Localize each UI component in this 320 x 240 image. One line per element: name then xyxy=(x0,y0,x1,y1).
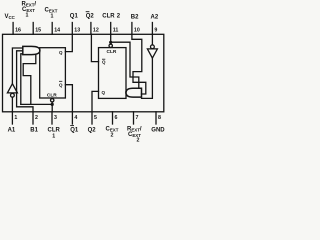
svg-text:CLR: CLR xyxy=(47,92,57,98)
svg-text:CLR: CLR xyxy=(102,13,115,19)
inverter A1 bubble xyxy=(11,93,15,97)
wire A1 input (pin1 to bubble) xyxy=(11,97,13,112)
svg-text:Q: Q xyxy=(59,83,63,88)
wire CLR1 vertical to gate bottom input xyxy=(21,54,23,105)
inverter A1 triangle xyxy=(7,84,17,93)
svg-text:Q1: Q1 xyxy=(70,127,79,133)
pin 3 stub xyxy=(51,112,53,124)
svg-text:CLR: CLR xyxy=(107,49,117,55)
wire CLR2 node jog to gate2 top xyxy=(111,42,139,88)
wire CLR2 pin11 to node xyxy=(110,34,112,44)
svg-text:GND: GND xyxy=(151,127,165,133)
pin 5 stub xyxy=(91,112,93,124)
svg-text:2: 2 xyxy=(111,133,114,139)
svg-text:2: 2 xyxy=(35,115,38,121)
wire B1 pin2 to gate middle input xyxy=(17,51,33,112)
wire Q1-bar output to pin 4 xyxy=(65,85,72,112)
and-gate G1 xyxy=(23,46,40,54)
svg-text:9: 9 xyxy=(154,28,157,34)
svg-text:CLR: CLR xyxy=(48,127,61,133)
svg-text:A2: A2 xyxy=(151,14,159,20)
svg-text:Q: Q xyxy=(102,59,106,64)
wire A1 inverted to gate top input xyxy=(12,48,22,84)
pin 1 stub xyxy=(11,112,13,124)
pin 14 stub xyxy=(51,23,53,35)
svg-text:2: 2 xyxy=(117,13,121,19)
svg-text:15: 15 xyxy=(35,28,41,34)
svg-text:13: 13 xyxy=(74,28,80,34)
svg-text:Q: Q xyxy=(102,90,106,95)
svg-text:12: 12 xyxy=(93,28,99,34)
svg-text:1: 1 xyxy=(51,14,54,20)
svg-text:Q1: Q1 xyxy=(70,13,79,19)
svg-text:VCC: VCC xyxy=(5,14,16,20)
pin 4 stub xyxy=(71,112,73,124)
svg-text:B2: B2 xyxy=(131,14,139,20)
clear bubble on block U1a xyxy=(51,99,54,102)
pin 2 stub xyxy=(32,112,34,124)
wire zigzag gate1 bottom to CLR1 net xyxy=(23,55,36,105)
svg-text:6: 6 xyxy=(115,115,118,121)
svg-text:7: 7 xyxy=(136,115,139,121)
svg-text:4: 4 xyxy=(74,115,77,121)
svg-text:5: 5 xyxy=(94,115,97,121)
svg-text:16: 16 xyxy=(15,28,21,34)
pin 12 stub xyxy=(90,23,92,35)
svg-text:A1: A1 xyxy=(8,127,16,133)
inverter A2 triangle xyxy=(147,49,157,58)
pin 11 stub xyxy=(110,23,112,35)
svg-text:1: 1 xyxy=(14,115,17,121)
wire Q2-bar output to pin 12 xyxy=(91,34,98,61)
svg-text:Q2: Q2 xyxy=(88,127,97,133)
pin 16 stub xyxy=(12,23,14,35)
package box xyxy=(3,34,164,112)
svg-text:3: 3 xyxy=(54,115,57,121)
pin 10 stub xyxy=(131,23,133,35)
pin 13 stub xyxy=(71,23,73,35)
svg-text:Q2: Q2 xyxy=(86,13,95,19)
wire CLR1 node to pin 3 xyxy=(51,104,53,111)
wire A2 inverted to gate2 bottom input xyxy=(142,58,153,98)
wire CLR1 horizontal to node xyxy=(21,103,52,105)
monostable block U1a xyxy=(40,48,66,98)
inverter A2 bubble xyxy=(151,45,155,49)
svg-text:1: 1 xyxy=(52,134,55,140)
wire Q2 output to pin 5 xyxy=(92,91,99,111)
wire A2 pin9 to bubble xyxy=(151,34,153,45)
svg-text:14: 14 xyxy=(54,28,60,34)
pin 15 stub xyxy=(32,23,34,35)
svg-text:Q: Q xyxy=(59,50,63,55)
pin 8 stub xyxy=(155,112,157,124)
pin 6 stub xyxy=(112,112,114,124)
monostable block U2a xyxy=(99,48,127,99)
wire Q1 output to pin 13 xyxy=(65,34,72,51)
svg-text:10: 10 xyxy=(134,28,140,34)
svg-text:B1: B1 xyxy=(30,127,38,133)
svg-text:11: 11 xyxy=(113,28,119,34)
and-gate G2 xyxy=(126,88,142,97)
pin 7 stub xyxy=(133,112,135,124)
node CLR1 junction xyxy=(51,103,54,106)
svg-text:CEXT: CEXT xyxy=(22,7,35,13)
node CLR2 junction xyxy=(109,41,112,44)
wire B2 pin10 zigzag to gate2 middle input xyxy=(132,34,146,94)
svg-text:1: 1 xyxy=(26,13,29,19)
clear bubble on block U2a xyxy=(109,44,112,47)
svg-text:8: 8 xyxy=(158,115,161,121)
wire CLR1 node to clear bubble xyxy=(51,102,53,104)
pin 9 stub xyxy=(151,23,153,35)
svg-text:2: 2 xyxy=(137,138,140,144)
